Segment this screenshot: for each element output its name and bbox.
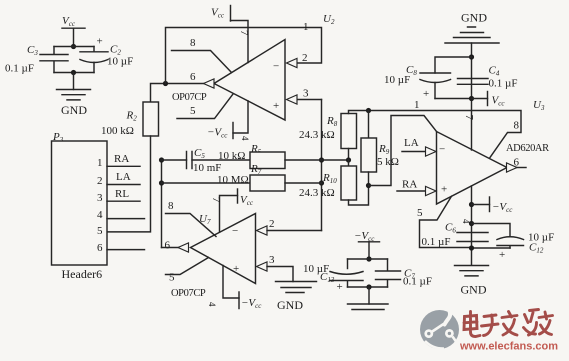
svg-text:+: + — [441, 184, 447, 196]
svg-text:5: 5 — [417, 207, 423, 219]
capacitor C8 (polarized) — [420, 73, 451, 99]
junction caps bottom bottom-center — [366, 284, 371, 289]
svg-text:0.1 µF: 0.1 µF — [422, 236, 451, 248]
wire header pin3 stub — [107, 200, 140, 202]
svg-text:0.1 µF: 0.1 µF — [5, 63, 34, 75]
power Vcc U3 wire — [472, 98, 488, 100]
ground top-left — [57, 90, 91, 100]
junction rail row1 — [319, 157, 324, 162]
wire R10 bottom loop to R9 bottom — [349, 186, 369, 206]
wire U7 pin2 to rail — [267, 230, 322, 232]
svg-text:10 MΩ: 10 MΩ — [217, 174, 249, 186]
svg-text:0.1 µF: 0.1 µF — [403, 276, 432, 288]
input arrow U2 pin 2 — [287, 58, 298, 67]
wire U7 pin8 stub — [166, 214, 217, 237]
junction Vcc node U3 — [469, 96, 474, 101]
svg-text:Header6: Header6 — [62, 267, 103, 281]
input arrow U7 pin 2 — [257, 226, 268, 235]
capacitor C5 — [187, 152, 193, 169]
wire U7 output column — [161, 160, 163, 248]
svg-text:8: 8 — [190, 37, 196, 49]
svg-text:24.3 kΩ: 24.3 kΩ — [299, 129, 335, 141]
power -Vcc U3 tick — [489, 197, 491, 212]
wire Vcc to top rail — [73, 28, 75, 46]
resistor R5 — [250, 152, 285, 169]
capacitor C4 — [458, 79, 489, 85]
junction column R7 row — [159, 180, 164, 185]
svg-text:+: + — [233, 263, 239, 275]
svg-text:1: 1 — [303, 21, 309, 33]
wire C8 branch top — [435, 57, 472, 73]
svg-text:www.elecfans.com: www.elecfans.com — [459, 341, 558, 353]
capacitor C2 (polarized) — [80, 47, 108, 73]
wire header pin2 stub — [107, 184, 140, 186]
ground U7 pin3 — [276, 282, 317, 293]
resistor R8 — [341, 114, 357, 149]
wire R7 to rail — [285, 182, 322, 184]
wire R8 top to rail1 — [349, 111, 522, 158]
op-amp U3 output arrow pin 6 — [507, 163, 518, 172]
svg-text:3: 3 — [303, 88, 309, 100]
svg-text:RA: RA — [402, 179, 417, 191]
svg-text:4: 4 — [207, 302, 217, 307]
wire C8 branch bottom — [435, 98, 472, 100]
wire U2 pin8 stub — [172, 51, 232, 73]
op-amp U3 triangle — [437, 132, 508, 205]
wire R8 bottom stub — [348, 149, 350, 161]
svg-text:GND: GND — [277, 298, 303, 312]
svg-text:+: + — [97, 36, 103, 48]
wire LA input — [402, 151, 426, 153]
input arrow U2 pin 3 — [287, 95, 298, 104]
wire column to R7 — [162, 182, 251, 184]
input arrow U7 pin 3 — [257, 262, 268, 271]
wire header pin4 stub — [107, 218, 145, 220]
wire GND down to U3 pin7 — [471, 43, 473, 150]
wire U2 feedback loop to pin 2 — [166, 28, 322, 84]
svg-text:5: 5 — [97, 225, 103, 237]
wire U3 pin5 wrap — [420, 196, 472, 247]
connector P3 Header6 body — [52, 141, 108, 265]
capacitor C12 (polarized) — [497, 237, 524, 248]
svg-text:4: 4 — [240, 136, 250, 141]
svg-text:−: − — [439, 144, 445, 156]
svg-text:10 µF: 10 µF — [384, 74, 410, 86]
resistor R10 — [341, 166, 357, 200]
svg-text:−: − — [232, 225, 238, 237]
svg-text:RA: RA — [114, 153, 129, 165]
power -Vcc bottom-center tick — [359, 241, 380, 243]
wire to ground top-left — [73, 73, 75, 90]
wire RA input — [397, 190, 426, 192]
svg-text:7: 7 — [210, 197, 222, 203]
watermark chinese brand strokes — [464, 310, 553, 337]
svg-text:LA: LA — [404, 137, 419, 149]
wire U2 pin5 stub — [177, 94, 233, 119]
wire to ground bottom-center — [368, 287, 370, 304]
wire U2 output node — [166, 83, 204, 85]
wire R5 to rail and R8R10 mid — [285, 159, 349, 161]
ground bottom-center — [348, 304, 389, 310]
wire U7 pin5 stub — [166, 258, 209, 275]
op-amp U2 triangle — [214, 40, 285, 121]
svg-text:10 µF: 10 µF — [107, 56, 133, 68]
junction rail1 R9 top — [366, 108, 371, 113]
ground top-right (inverted) — [445, 27, 499, 43]
op-amp U7 triangle — [191, 214, 256, 284]
junction top-left rail — [71, 44, 76, 49]
svg-text:2: 2 — [269, 218, 275, 230]
capacitor C7 — [376, 259, 401, 287]
power Vcc U7 tick — [237, 189, 239, 203]
wire net rail vertical — [321, 100, 323, 231]
wire U2 pin4 to -Vcc — [233, 101, 248, 133]
junction C6 C12 bottom — [469, 245, 474, 250]
wire U7 pin7 to Vcc — [220, 196, 238, 233]
wire top rail C3-C2 — [54, 46, 94, 48]
junction U2 output — [163, 81, 168, 86]
capacitor C13 (polarized) — [330, 259, 363, 287]
svg-text:GND: GND — [461, 11, 487, 25]
junction C6 C12 top — [469, 221, 474, 226]
svg-text:6: 6 — [97, 242, 103, 254]
svg-text:LA: LA — [116, 171, 131, 183]
power -Vcc U7 tick — [238, 292, 240, 309]
wire R9 top stub — [368, 111, 370, 139]
wire C12 branch top — [472, 224, 511, 237]
wire U7 pin3 to ground — [267, 267, 293, 282]
svg-text:5 kΩ: 5 kΩ — [377, 156, 399, 168]
svg-text:6: 6 — [514, 157, 520, 169]
junction R9 bottom pin1 net — [366, 183, 371, 188]
svg-text:1: 1 — [414, 99, 420, 111]
svg-text:−: − — [273, 61, 279, 73]
resistor R7 — [250, 175, 285, 191]
svg-text:24.3 kΩ: 24.3 kΩ — [299, 187, 335, 199]
svg-text:10 mF: 10 mF — [193, 162, 221, 174]
junction R8 R10 mid — [346, 157, 351, 162]
svg-text:OP07CP: OP07CP — [172, 92, 207, 103]
svg-text:+: + — [499, 249, 505, 261]
svg-text:7: 7 — [463, 115, 475, 121]
power -Vcc U2 tick — [232, 123, 234, 139]
svg-text:GND: GND — [461, 283, 487, 297]
wire C12 branch bottom — [472, 247, 511, 249]
junction caps top bottom-center — [366, 256, 371, 261]
svg-text:3: 3 — [97, 192, 103, 204]
wire caps top rail bottom-center — [348, 258, 388, 260]
input arrow U3 minus — [426, 147, 437, 156]
svg-text:10 kΩ: 10 kΩ — [218, 150, 245, 162]
ground bottom-right — [455, 266, 489, 276]
power Vcc U2 tick — [230, 6, 232, 22]
svg-text:7: 7 — [238, 30, 250, 36]
wire -Vcc to cap rail — [368, 242, 370, 259]
svg-text:+: + — [337, 281, 343, 293]
wire U2 pin7 to Vcc — [231, 21, 249, 63]
wire U2 output to R2 — [151, 84, 166, 103]
input arrow U3 plus — [426, 186, 437, 195]
svg-text:2: 2 — [302, 52, 308, 64]
wire R2 to header pin5 — [107, 136, 151, 232]
svg-text:6: 6 — [190, 71, 196, 83]
svg-text:+: + — [273, 100, 279, 112]
wire column to C5 — [162, 159, 187, 161]
svg-text:100 kΩ: 100 kΩ — [101, 125, 134, 137]
wire U7 output to column — [162, 247, 179, 249]
power Vcc U3 tick — [487, 92, 489, 106]
junction rail row2 — [319, 180, 324, 185]
svg-text:4: 4 — [97, 209, 103, 221]
svg-text:6: 6 — [165, 240, 171, 252]
svg-text:3: 3 — [269, 254, 275, 266]
resistor R9 — [361, 138, 377, 172]
wire header pin1 stub — [107, 165, 140, 167]
svg-text:5: 5 — [169, 272, 175, 284]
junction -Vcc node U3 — [469, 202, 474, 207]
svg-text:5: 5 — [190, 105, 196, 117]
wire U7 pin4 to -Vcc — [223, 266, 239, 299]
svg-text:0.1 µF: 0.1 µF — [489, 78, 518, 90]
wire pin1 bracket U3 — [369, 116, 437, 186]
wire C5 to R5 — [192, 159, 250, 161]
svg-text:OP07CP: OP07CP — [171, 288, 206, 299]
resistor R2 — [143, 102, 159, 136]
svg-text:GND: GND — [61, 103, 87, 117]
svg-text:2: 2 — [97, 175, 103, 187]
wire R10 top stub — [348, 160, 350, 166]
wire U3 pin4 down — [471, 186, 473, 265]
wire header pin6 stub — [107, 249, 145, 251]
svg-text:8: 8 — [168, 200, 174, 212]
junction column C5 row — [159, 157, 164, 162]
power -Vcc U3 wire — [472, 204, 490, 206]
svg-text:8: 8 — [514, 120, 520, 132]
wire bottom rail C3-C2 — [54, 72, 94, 74]
wire caps bottom rail bottom-center — [348, 286, 388, 288]
capacitor C3 — [40, 47, 68, 73]
wire U2 pin3 to rail — [297, 99, 322, 101]
svg-text:1: 1 — [97, 157, 103, 169]
wire U3 output stub — [517, 167, 526, 169]
capacitor C6 — [457, 233, 488, 242]
op-amp U7 output arrow pin 6 — [178, 243, 189, 252]
svg-text:+: + — [423, 88, 429, 100]
watermark logo circle — [420, 307, 459, 350]
power Vcc top-left tick bar — [62, 27, 85, 29]
op-amp U2 output arrow pin 6 — [204, 79, 215, 88]
svg-text:AD620AR: AD620AR — [506, 143, 549, 154]
junction C8 branch top — [469, 54, 474, 59]
junction bottom-left rail — [71, 70, 76, 75]
wire R9 bottom stub — [368, 172, 370, 186]
svg-text:RL: RL — [115, 188, 129, 200]
